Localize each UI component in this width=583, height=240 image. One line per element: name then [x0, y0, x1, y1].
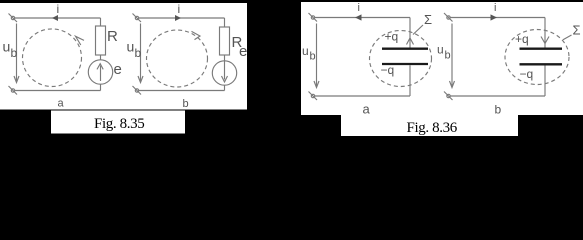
wire right-top circuit b	[224, 18, 226, 27]
wire bottom fig836b	[451, 95, 546, 97]
wire bottom circuit b	[139, 90, 225, 92]
wire capacitor to bottom fig836b	[544, 66, 546, 97]
terminal top-left circuit a (Fig 8.35a)	[9, 14, 18, 23]
current arrow i fig836b (pointing right)	[491, 14, 498, 20]
loop direction arrow circuit b (clockwise)	[192, 31, 201, 39]
dashed surface sigma fig836a	[370, 31, 432, 87]
terminal bottom-left circuit a (Fig 8.35a)	[9, 86, 18, 95]
svg-text:b: b	[183, 98, 189, 110]
svg-text:b: b	[495, 103, 502, 117]
svg-text:−q: −q	[381, 63, 395, 77]
svg-text:Fig. 8.36: Fig. 8.36	[407, 120, 458, 136]
wire right-top circuit a	[100, 18, 102, 26]
capacitor top plate fig836b	[520, 48, 563, 50]
svg-text:i: i	[494, 2, 496, 14]
svg-text:−q: −q	[520, 67, 534, 81]
resistor R circuit b	[220, 27, 230, 55]
left caption box	[51, 111, 185, 134]
wire resistor to source circuit a	[100, 55, 102, 60]
svg-text:b: b	[11, 46, 18, 60]
terminal top-left circuit b (Fig 8.35b)	[133, 14, 142, 23]
svg-text:a: a	[363, 101, 371, 116]
dashed loop circuit b	[147, 30, 208, 87]
svg-text:u: u	[302, 44, 309, 58]
wire capacitor to bottom fig836a	[409, 65, 411, 96]
dashed surface sigma fig836b	[505, 30, 569, 85]
svg-text:Σ: Σ	[424, 12, 432, 27]
svg-text:b: b	[445, 50, 451, 62]
wire resistor to source circuit b	[224, 55, 226, 61]
wire bottom fig836a	[315, 95, 410, 97]
current arrow i circuit b (pointing right)	[175, 15, 181, 21]
terminal bottom-left circuit b (Fig 8.36b)	[444, 92, 453, 101]
wire top circuit a fig836	[315, 17, 410, 19]
wire down to capacitor fig836a	[409, 18, 411, 48]
terminal top-left circuit a (Fig 8.36a)	[309, 13, 318, 22]
terminal bottom-left circuit a (Fig 8.36a)	[309, 92, 318, 101]
svg-text:b: b	[310, 51, 316, 63]
sigma leader line fig836a	[413, 25, 423, 35]
wire arrow into capacitor fig836b (pointing down)	[541, 37, 549, 44]
svg-text:+q: +q	[385, 30, 399, 44]
wire top circuit b	[139, 17, 225, 19]
svg-text:e: e	[239, 43, 247, 60]
terminal top-left circuit b (Fig 8.36b)	[444, 13, 453, 22]
svg-text:i: i	[178, 2, 181, 16]
svg-text:a: a	[58, 98, 65, 110]
svg-text:R: R	[107, 28, 118, 45]
voltage arrow u circuit b	[138, 24, 143, 83]
svg-text:b: b	[135, 46, 142, 60]
svg-text:e: e	[114, 61, 122, 78]
resistor R circuit a	[96, 26, 106, 55]
EMF source e circuit a (arrow up)	[88, 60, 112, 84]
svg-text:u: u	[3, 39, 11, 55]
svg-text:+q: +q	[515, 32, 529, 46]
svg-text:u: u	[437, 43, 444, 57]
capacitor top plate fig836a	[382, 48, 428, 50]
voltage arrow u fig836b	[450, 24, 455, 88]
svg-text:Fig. 8.35: Fig. 8.35	[94, 116, 144, 132]
wire top circuit a	[15, 17, 101, 19]
right caption box	[341, 115, 518, 136]
left figure white area	[0, 3, 247, 110]
right figure white area	[301, 2, 583, 115]
svg-text:i: i	[358, 2, 360, 14]
wire source to bottom circuit a	[100, 84, 102, 90]
capacitor bottom plate fig836a	[382, 63, 428, 65]
svg-text:u: u	[127, 39, 135, 55]
dashed loop circuit a	[23, 29, 82, 87]
terminal bottom-left circuit b (Fig 8.35b)	[133, 86, 142, 95]
loop direction arrow circuit a (counter-clockwise)	[76, 36, 85, 45]
voltage arrow u fig836a	[314, 24, 319, 88]
EMF source e circuit b (arrow down)	[212, 61, 236, 85]
wire down to capacitor fig836b	[544, 18, 546, 48]
wire source to bottom circuit b	[224, 85, 226, 90]
sigma leader line fig836b	[563, 35, 572, 40]
svg-text:i: i	[57, 2, 60, 16]
page background	[0, 0, 583, 141]
current arrow i circuit a (pointing left)	[52, 15, 58, 21]
capacitor bottom plate fig836b	[520, 63, 563, 65]
voltage arrow u circuit a	[14, 24, 19, 83]
wire top circuit b fig836	[451, 17, 546, 19]
svg-text:Σ: Σ	[573, 23, 581, 38]
current arrow i fig836a (pointing left)	[355, 14, 362, 20]
wire arrow out of capacitor fig836a (pointing up)	[407, 38, 414, 45]
wire bottom circuit a	[15, 90, 101, 92]
